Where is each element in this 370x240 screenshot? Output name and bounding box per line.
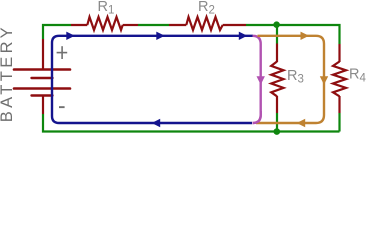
wire red lead left of R1 [71, 24, 87, 26]
wire purple bottom arc overlay [253, 111, 261, 123]
battery polarity minus sign [59, 106, 65, 108]
battery plate long lower [14, 87, 70, 90]
wire red R4 bottom lead [338, 96, 340, 113]
wire purple branch loop R3 [253, 36, 261, 123]
orange arrow right [301, 32, 310, 40]
purple arrow down [257, 76, 265, 85]
node junction dot bottom [274, 128, 281, 135]
wire green node branch top lead [276, 25, 278, 44]
node junction dot top [273, 21, 280, 28]
wire red lead right of R1 [123, 24, 138, 26]
wire blue current loop [52, 36, 253, 123]
blue arrow top 1 [66, 32, 75, 40]
wire green top-left border segment [43, 25, 71, 39]
svg-text:BATTERY: BATTERY [0, 24, 16, 122]
wire green top middle segment [138, 24, 169, 26]
wire green right-bottom border segment [338, 113, 340, 132]
wire green bottom border [43, 114, 340, 132]
resistor R2 [186, 17, 222, 30]
blue arrow bottom [152, 119, 161, 127]
battery polarity plus sign [57, 52, 68, 54]
wire red R3 bottom lead [276, 96, 278, 113]
resistor R4 [333, 62, 346, 97]
resistor R3 [271, 62, 283, 97]
wire green node branch bottom lead [276, 113, 278, 132]
wire red lead left of R2 [169, 24, 186, 26]
wire red battery top lead [42, 39, 44, 69]
wire red R3 top lead [276, 44, 278, 63]
wire red lead right of R2 [223, 24, 246, 26]
wire red battery bottom lead [42, 97, 44, 115]
wire red R4 top lead [338, 44, 340, 62]
battery plate long top [14, 68, 70, 71]
blue arrow top 3 [239, 32, 248, 40]
wire green top-right border segment [246, 25, 340, 44]
battery plate short bottom [32, 94, 53, 96]
resistor R1 [87, 17, 122, 30]
battery plate short upper [32, 77, 53, 79]
orange arrow left [297, 119, 306, 127]
blue arrow top 2 [156, 32, 165, 40]
wire orange branch loop R4 [256, 36, 324, 123]
orange arrow down [320, 76, 328, 85]
